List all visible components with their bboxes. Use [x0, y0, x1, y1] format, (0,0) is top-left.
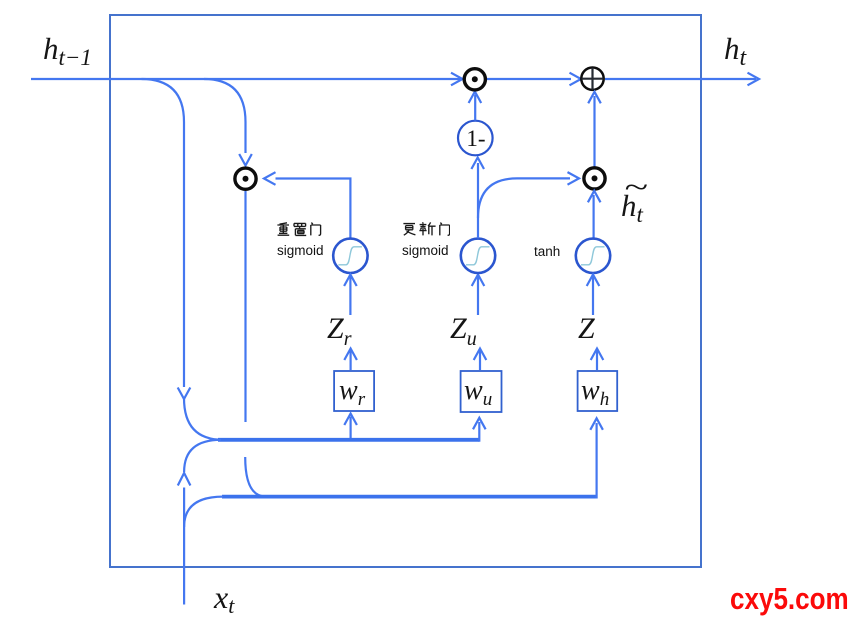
- arrowhead into update sigmoid: [472, 275, 485, 287]
- wire from first dot-product to plus: [486, 78, 571, 80]
- wire hop curve into concat line 2: [245, 457, 266, 497]
- concat line 1 (h,x) thick horizontal: [218, 438, 479, 442]
- arrowhead into Wh: [590, 418, 603, 430]
- label h(t): [724, 31, 746, 72]
- label wh in box: [581, 375, 609, 411]
- wire z branch curve to htilde dot-product: [478, 178, 570, 218]
- arrowhead left into reset dot-product: [264, 172, 276, 185]
- arrowhead into first dot-product: [451, 73, 463, 86]
- label 1- in circle: [464, 126, 488, 152]
- box Wh: [578, 371, 618, 411]
- wire reset dot-product output down: [244, 191, 246, 422]
- wire corner up from concat line 1 to Wu: [478, 422, 480, 442]
- arrowhead into reset dot-product: [239, 154, 252, 166]
- wire reset sigmoid output to dot-product: [276, 179, 351, 240]
- label wu in box: [464, 375, 492, 411]
- plus (add) node: [581, 68, 603, 90]
- arrowhead into tanh: [587, 275, 600, 287]
- wire Zr to reset sigmoid: [349, 276, 351, 315]
- arrowhead into reset sigmoid: [344, 275, 357, 287]
- wire htilde dot-product up to plus: [593, 96, 595, 168]
- label h-tilde(t): [621, 188, 643, 228]
- label sigmoid (update): [402, 243, 449, 258]
- label sigmoid (reset): [277, 243, 324, 258]
- arrowhead into plus: [588, 92, 601, 104]
- wire Z to tanh: [592, 276, 594, 315]
- arrowhead into first dot-product: [469, 92, 482, 104]
- dot-product (1-z times h) on main line: [464, 69, 485, 90]
- arrowhead into htilde dot-product: [568, 172, 580, 185]
- wire corner up from concat line 2 to Wh: [595, 423, 597, 499]
- wire concat line 1 up into Wr: [350, 417, 352, 440]
- label Zu: [450, 312, 477, 351]
- wire Wh to Z: [596, 350, 598, 370]
- tilde of h-tilde: [624, 171, 648, 205]
- sigmoid circle (update gate): [461, 239, 495, 273]
- wire x(t) branch curve into concat line 2: [184, 497, 223, 527]
- label x(t): [214, 579, 234, 619]
- tanh circle: [576, 239, 610, 273]
- arrowhead down on h branch 1: [178, 388, 191, 400]
- wire curve h branch 1 into concat line 1: [184, 398, 223, 440]
- dot-product (reset gate multiply): [235, 168, 256, 189]
- arrowhead into Zu: [474, 349, 487, 361]
- arrowhead into plus: [570, 73, 582, 86]
- sigmoid circle (reset gate): [333, 239, 367, 273]
- wire x(t) curve into concat line 1: [184, 440, 221, 472]
- label update gate (Chinese): [402, 222, 450, 238]
- arrowhead up on x(t) line: [178, 473, 191, 486]
- dot-product (z times htilde): [584, 168, 605, 189]
- label h(t-1): [43, 31, 92, 71]
- label Z: [578, 312, 595, 346]
- arrowhead into Wu: [473, 418, 486, 430]
- watermark cxy5.com: [730, 581, 849, 617]
- wire update sigmoid output up to 1- circle: [477, 163, 479, 238]
- arrowhead into Wr from concat line 1: [344, 414, 357, 426]
- arrowhead into Z: [591, 349, 604, 361]
- label reset gate (Chinese): [276, 222, 324, 238]
- box Wr: [334, 371, 374, 411]
- arrowhead into 1- circle: [471, 158, 484, 170]
- wire Wu to Zu: [479, 350, 481, 370]
- wire Wr to Zr: [350, 350, 352, 370]
- wire Zu to update sigmoid: [477, 276, 479, 315]
- label tanh: [534, 244, 560, 259]
- arrowhead h(t) output: [748, 73, 760, 86]
- wire tanh output up to htilde dot-product: [592, 195, 594, 239]
- wire x(t) input vertical: [183, 488, 185, 605]
- label Zr: [327, 312, 351, 351]
- wire h branch 2 down to reset dot-product: [204, 79, 246, 153]
- circle 1- (one minus): [458, 121, 493, 156]
- label wr in box: [339, 375, 365, 411]
- wire h branch 1 down (to concat line 1): [142, 79, 185, 387]
- arrowhead into htilde dot-product: [588, 191, 601, 203]
- wire h(t) output segment: [605, 78, 756, 80]
- arrowhead into Zr: [344, 349, 357, 361]
- wire h(t-1) main horizontal line left segment: [31, 78, 460, 80]
- wire 1- output up to first dot-product: [474, 95, 476, 121]
- GRU cell boundary box: [110, 15, 701, 567]
- concat line 2 (r*h,x) thick horizontal: [222, 495, 597, 499]
- box Wu: [461, 371, 502, 412]
